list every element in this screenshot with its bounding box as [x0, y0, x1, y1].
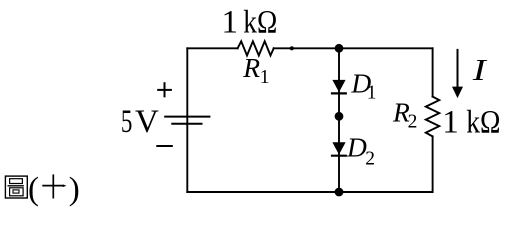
- node dot top: [335, 44, 344, 53]
- wire middle branch: [338, 48, 340, 192]
- caption char ten (cross): [42, 174, 64, 198]
- wire right top segment: [432, 48, 434, 96]
- minus sign: [156, 145, 173, 147]
- svg-text:1: 1: [260, 67, 270, 88]
- wire left: [186, 48, 188, 192]
- wire right bottom segment: [432, 136, 434, 192]
- wire top left segment: [187, 47, 237, 49]
- svg-text:R: R: [242, 52, 260, 83]
- wire top right segment: [274, 47, 433, 49]
- small joint dot on top wire: [290, 46, 294, 50]
- diode D1: [332, 80, 345, 92]
- svg-text:D: D: [346, 132, 367, 163]
- svg-text:1: 1: [367, 82, 377, 103]
- svg-text:): ): [69, 171, 80, 207]
- svg-text:I: I: [472, 52, 488, 87]
- battery V1 top plate (+): [164, 116, 210, 118]
- svg-text:(: (: [28, 171, 39, 207]
- svg-text:5: 5: [121, 104, 132, 140]
- current arrow I: [457, 49, 459, 88]
- svg-text:1: 1: [442, 105, 459, 141]
- svg-text:kΩ: kΩ: [243, 4, 277, 40]
- svg-text:1: 1: [222, 4, 239, 40]
- svg-text:kΩ: kΩ: [466, 105, 500, 141]
- wire bottom: [187, 191, 432, 193]
- svg-text:2: 2: [365, 148, 375, 169]
- resistor R2: [426, 97, 440, 137]
- caption: char Tu (figure) drawn as strokes: [5, 176, 27, 198]
- plus sign: [157, 82, 172, 97]
- battery V1 bottom plate (-): [171, 123, 202, 125]
- svg-text:V: V: [135, 104, 159, 140]
- resistor R1: [238, 41, 274, 55]
- node dot bottom: [335, 188, 344, 197]
- svg-text:2: 2: [408, 112, 418, 133]
- node dot middle: [335, 112, 344, 121]
- diode D2: [332, 142, 345, 154]
